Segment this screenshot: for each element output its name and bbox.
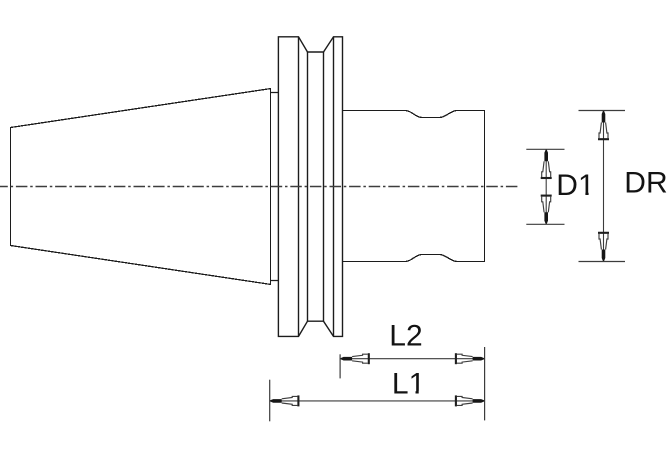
taper shank cone outline xyxy=(11,89,271,285)
dimension L2 left extension line xyxy=(339,354,341,378)
flange V-groove left inner vertical xyxy=(307,52,309,321)
white patches trimming the "1" foot serif to Arial style xyxy=(410,391,416,395)
svg-text:L1: L1 xyxy=(392,368,425,401)
flange V-groove right inner vertical xyxy=(323,52,325,321)
label L2 xyxy=(389,320,422,353)
dimension D1 lower arrow xyxy=(541,196,552,224)
dimension L2 horizontal dimension line xyxy=(340,358,485,360)
label L1 xyxy=(392,368,425,401)
white patches trimming the "1" foot serif to Arial style xyxy=(579,192,585,196)
flange V-groove right outer vertical xyxy=(333,37,335,337)
dimension DR lower arrow xyxy=(598,233,609,261)
dimension D1 upper arrow xyxy=(541,150,552,178)
label DR xyxy=(624,166,667,199)
dimension DR upper arrow xyxy=(598,111,609,139)
label D1 xyxy=(556,169,594,202)
dimension D1 top extension line xyxy=(526,148,564,150)
svg-text:D1: D1 xyxy=(556,169,594,202)
dimension L1 left extension line xyxy=(269,380,271,422)
dimension DR bottom extension line xyxy=(579,261,626,263)
dimension L1 right arrow xyxy=(456,395,484,406)
pilot step between cone and flange xyxy=(271,93,279,281)
shared right extension line for L1 and L2 xyxy=(484,347,486,420)
dimension D1 vertical dimension line xyxy=(545,149,547,224)
svg-text:DR: DR xyxy=(624,166,667,199)
flange body outline with top and bottom V-groove xyxy=(278,37,342,337)
centerline (horizontal dash-dot axis) xyxy=(0,186,518,188)
dimension L2 right arrow xyxy=(456,353,484,364)
dimension L2 left arrow xyxy=(341,353,369,364)
dimension DR top extension line xyxy=(579,110,626,112)
dimension DR vertical dimension line xyxy=(603,111,605,262)
flange V-groove left outer vertical xyxy=(298,37,300,337)
cylindrical body with retention groove xyxy=(343,111,485,262)
svg-text:L2: L2 xyxy=(389,320,422,353)
dimension L1 left arrow xyxy=(270,395,298,406)
dimension D1 bottom extension line xyxy=(526,223,564,225)
dimension L1 horizontal dimension line xyxy=(270,400,485,402)
